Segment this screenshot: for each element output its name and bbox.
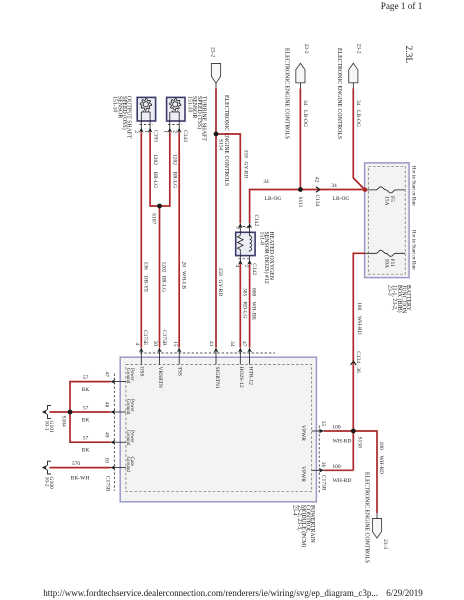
junction S107 bbox=[150, 204, 162, 225]
wire 100 WH-RD fuse F11 to S150 bbox=[353, 253, 365, 470]
svg-text:100: 100 bbox=[332, 425, 341, 431]
svg-text:570: 570 bbox=[72, 461, 81, 467]
wire 136 DB-YE OSS pin2 to PCM pin4 bbox=[141, 132, 148, 347]
label 2.3L bbox=[403, 46, 413, 64]
svg-text:1202: 1202 bbox=[152, 154, 158, 165]
svg-text:C175B: C175B bbox=[320, 475, 326, 491]
svg-text:BK: BK bbox=[82, 387, 90, 393]
svg-text:LB-OG: LB-OG bbox=[355, 110, 361, 127]
svg-text:57: 57 bbox=[83, 436, 89, 442]
svg-text:47: 47 bbox=[241, 341, 247, 347]
svg-text:359: 359 bbox=[217, 268, 223, 277]
PCM top pin stubs and arrows (pins 4,50,15,41,34,47) bbox=[134, 341, 252, 365]
svg-text:Page 1 of 1: Page 1 of 1 bbox=[381, 1, 423, 11]
svg-text:1: 1 bbox=[143, 130, 149, 133]
svg-text:57: 57 bbox=[83, 375, 89, 381]
wire 100 WH-RD S150 to connector4 bbox=[353, 431, 384, 513]
PCM connector face dashed line (right) bbox=[318, 426, 320, 495]
wire 305 RD-LG HO2S pin4 to PCM pin34 bbox=[240, 264, 247, 347]
PCM connector face dashed line (top) bbox=[140, 352, 275, 354]
PCM module box (Powertrain Control Module) bbox=[120, 357, 316, 502]
svg-text:34: 34 bbox=[263, 179, 269, 185]
svg-text:C134: C134 bbox=[314, 195, 320, 207]
wire 100 WH-RD S150 to PCM pin35 bbox=[324, 425, 353, 445]
svg-text:WH-RD: WH-RD bbox=[333, 478, 352, 484]
OSS connector C193 pins bbox=[133, 112, 158, 142]
svg-text:WH-RD: WH-RD bbox=[378, 456, 384, 475]
svg-text:1: 1 bbox=[162, 130, 168, 133]
fuse F5 15A bbox=[365, 187, 405, 206]
HO2S top connector C142 pins 3 and 1 bbox=[234, 215, 259, 233]
svg-text:100: 100 bbox=[332, 464, 341, 470]
wire 57 BK S104 to PCM pin47 bbox=[70, 375, 111, 412]
wire 359 GY-RD S154 to PCM pin41 bbox=[216, 134, 223, 348]
svg-text:WH-RD: WH-RD bbox=[356, 316, 362, 335]
svg-text:48: 48 bbox=[104, 402, 110, 408]
wire 57 BK S104 to PCM pin49 bbox=[70, 412, 111, 454]
svg-text:2: 2 bbox=[244, 265, 250, 268]
svg-text:C142: C142 bbox=[251, 263, 257, 275]
svg-text:BK-WH: BK-WH bbox=[71, 476, 90, 482]
svg-text:4: 4 bbox=[134, 343, 140, 346]
junction at fuse F5 terminal bbox=[363, 188, 367, 192]
PCM internal pin names (top) bbox=[139, 367, 254, 390]
svg-text:100: 100 bbox=[356, 302, 362, 311]
svg-text:151-10: 151-10 bbox=[186, 96, 192, 113]
svg-text:49: 49 bbox=[104, 432, 110, 438]
label TSS sensor name bbox=[186, 96, 206, 141]
svg-text:Hot in Start or Run: Hot in Start or Run bbox=[411, 166, 417, 206]
svg-text:100: 100 bbox=[378, 442, 384, 451]
svg-text:Ground: Ground bbox=[125, 430, 130, 446]
svg-text:VPWR: VPWR bbox=[300, 466, 306, 482]
junction S111 bbox=[297, 187, 303, 208]
label powertrain control module bbox=[291, 505, 315, 547]
svg-text:C142: C142 bbox=[253, 215, 259, 227]
svg-text:BK: BK bbox=[82, 418, 90, 424]
svg-text:1: 1 bbox=[244, 226, 250, 229]
svg-text:LB-OG: LB-OG bbox=[265, 196, 282, 202]
svg-text:10: 10 bbox=[104, 457, 110, 463]
svg-text:S111: S111 bbox=[297, 197, 303, 208]
svg-text:10-1: 10-1 bbox=[44, 421, 50, 431]
off-page connector 2 electronic engine controls (23-2) bbox=[283, 44, 309, 140]
svg-text:23-4: 23-4 bbox=[291, 505, 297, 516]
svg-text:VRSRTN: VRSRTN bbox=[157, 367, 163, 388]
svg-text:TSS: TSS bbox=[177, 367, 183, 376]
svg-text:VPWR: VPWR bbox=[300, 425, 306, 441]
svg-text:23-2: 23-2 bbox=[210, 47, 216, 57]
svg-text:4: 4 bbox=[234, 265, 240, 268]
svg-text:ELECTRONIC ENGINE CONTROLS: ELECTRONIC ENGINE CONTROLS bbox=[336, 48, 342, 139]
svg-text:2: 2 bbox=[172, 130, 178, 133]
wire 57 BK ground G101 to S104 bbox=[50, 411, 71, 413]
svg-text:RD-LG: RD-LG bbox=[241, 302, 247, 319]
PCM internal pin names (right) bbox=[300, 425, 306, 482]
HO2S bottom connector C142 pins 4 and 2 bbox=[234, 256, 257, 276]
junction S150 bbox=[351, 429, 363, 448]
svg-text:800: 800 bbox=[251, 288, 257, 297]
svg-text:C193: C193 bbox=[153, 130, 159, 142]
svg-text:2.3L: 2.3L bbox=[403, 46, 413, 64]
svg-text:http://www.fordtechservice.dea: http://www.fordtechservice.dealerconnect… bbox=[43, 588, 378, 598]
svg-text:C134 . 36: C134 . 36 bbox=[355, 351, 361, 373]
svg-text:23-3: 23-3 bbox=[387, 285, 393, 296]
wire 359 GY-RD S154 branch to HO2S pin3 bbox=[216, 134, 249, 223]
svg-text:C175B: C175B bbox=[161, 330, 167, 346]
svg-text:15A: 15A bbox=[383, 196, 389, 206]
svg-text:ELECTRONIC ENGINE CONTROLS: ELECTRONIC ENGINE CONTROLS bbox=[283, 48, 289, 139]
svg-text:50: 50 bbox=[152, 341, 158, 347]
fuse F11 10A bbox=[365, 250, 405, 268]
svg-text:34: 34 bbox=[355, 100, 361, 106]
svg-text:BR-LG: BR-LG bbox=[161, 276, 167, 293]
svg-text:151-10: 151-10 bbox=[112, 96, 118, 113]
battery junction box (BJB) bbox=[365, 163, 410, 278]
sensor box HO2S (heated oxygen sensor #12) bbox=[236, 232, 255, 255]
svg-text:136: 136 bbox=[142, 262, 148, 271]
connector label C175B (top) bbox=[161, 330, 167, 346]
wire 100 WH-RD S150 down branch to PCM pin36 bbox=[324, 464, 353, 484]
svg-text:S107: S107 bbox=[150, 213, 156, 225]
svg-text:Ground: Ground bbox=[125, 368, 130, 384]
inline connector C134 pin 36 on vertical wire bbox=[351, 351, 361, 373]
off-page connector 1 electronic engine controls (23-2) bbox=[210, 47, 229, 186]
PCM connector face dashed line (left) bbox=[113, 374, 115, 492]
svg-text:359: 359 bbox=[243, 150, 249, 159]
svg-text:C175E: C175E bbox=[142, 330, 148, 346]
svg-text:2: 2 bbox=[133, 130, 139, 133]
junction S154 bbox=[214, 132, 224, 151]
svg-text:20: 20 bbox=[180, 262, 186, 268]
label HO2S sensor name bbox=[258, 232, 273, 284]
svg-text:Ground: Ground bbox=[125, 457, 130, 473]
svg-text:57: 57 bbox=[83, 406, 89, 412]
svg-text:10-2: 10-2 bbox=[44, 477, 50, 487]
svg-text:1202: 1202 bbox=[161, 262, 167, 273]
svg-text:34: 34 bbox=[302, 100, 308, 106]
svg-text:Ground: Ground bbox=[125, 399, 130, 415]
wire connector1 to S154 bbox=[215, 89, 217, 135]
PCM left pin stubs and arrows (pins 47,48,49,10) bbox=[104, 371, 126, 470]
PCM internal pin names (left) bbox=[125, 368, 134, 472]
svg-text:34: 34 bbox=[229, 341, 235, 347]
svg-text:35: 35 bbox=[320, 421, 326, 427]
wire 570 BK-WH ground G100 to PCM pin10 bbox=[50, 461, 111, 482]
wire 57 BK S104 to PCM pin48 bbox=[70, 406, 111, 424]
connector label C175E bbox=[142, 330, 148, 346]
svg-text:151-8: 151-8 bbox=[258, 232, 264, 246]
wire 1202 BR-LG TSS pin1 branch to S107 bbox=[160, 132, 178, 206]
label battery junction box bbox=[387, 285, 411, 314]
svg-text:S150: S150 bbox=[356, 437, 362, 449]
svg-text:23-2: 23-2 bbox=[355, 44, 361, 54]
sensor box TSS (turbine shaft speed sensor) bbox=[167, 97, 185, 121]
connector label C175B (bottom right) bbox=[320, 475, 326, 491]
label hot in start or run (F11) bbox=[411, 230, 417, 270]
page footer URL bbox=[43, 588, 423, 598]
svg-text:Hot in Start or Run: Hot in Start or Run bbox=[411, 230, 417, 270]
connector label C175B (bottom left) bbox=[104, 476, 110, 492]
wire 800 WH-BK HO2S pin2 to PCM pin47 bbox=[250, 264, 257, 347]
svg-text:ELECTRONIC ENGINE CONTROLS: ELECTRONIC ENGINE CONTROLS bbox=[363, 472, 369, 563]
TSS connector C143 pins bbox=[162, 112, 188, 142]
svg-text:10A: 10A bbox=[383, 259, 389, 269]
off-page connector 3 electronic engine controls (23-2) bbox=[336, 44, 362, 140]
svg-text:41: 41 bbox=[208, 341, 214, 347]
svg-text:23-3: 23-3 bbox=[382, 539, 388, 549]
svg-text:DB-YE: DB-YE bbox=[142, 276, 148, 293]
svg-text:WH-BK: WH-BK bbox=[251, 302, 257, 321]
svg-text:LB-OG: LB-OG bbox=[302, 110, 308, 127]
svg-text:HO2S-12: HO2S-12 bbox=[238, 367, 244, 388]
svg-text:6/29/2019: 6/29/2019 bbox=[386, 588, 423, 598]
svg-text:15: 15 bbox=[172, 341, 178, 347]
PCM right pin stubs and arrows (pins 35,36) bbox=[312, 421, 326, 473]
wire 1202 BR-LG OSS pin1 branch to S107 bbox=[150, 132, 159, 206]
label hot in start or run (F5) bbox=[411, 166, 417, 206]
svg-text:305: 305 bbox=[241, 288, 247, 297]
svg-text:BR-LG: BR-LG bbox=[152, 172, 158, 189]
svg-text:S104: S104 bbox=[60, 416, 66, 428]
svg-text:BK: BK bbox=[82, 448, 90, 454]
svg-text:3: 3 bbox=[234, 226, 240, 229]
svg-text:23-2: 23-2 bbox=[303, 44, 309, 54]
wire 34 LB-OG connector3 to BJB fuse F5 terminal bbox=[353, 88, 365, 190]
svg-text:C143: C143 bbox=[182, 130, 188, 142]
off-page connector 4 electronic engine controls (23-3) bbox=[363, 472, 388, 563]
inline connector C134 pin 42 on horizontal wire bbox=[314, 177, 350, 207]
svg-text:LB-OG: LB-OG bbox=[333, 196, 350, 202]
svg-text:36: 36 bbox=[320, 462, 326, 468]
wire 1202 BR-LG S107 to PCM pin50 bbox=[160, 206, 167, 348]
svg-text:WH-LB: WH-LB bbox=[180, 271, 186, 289]
svg-text:SIGRTN1: SIGRTN1 bbox=[214, 367, 220, 390]
svg-text:OSS: OSS bbox=[139, 367, 145, 377]
svg-text:GY-RD: GY-RD bbox=[217, 280, 223, 297]
svg-text:HTR-12: HTR-12 bbox=[247, 367, 253, 386]
ground G101 bbox=[42, 406, 54, 433]
sensor box OSS (output shaft speed sensor) bbox=[137, 97, 155, 121]
wire 34 LB-OG connector2 to S111 bbox=[300, 88, 308, 189]
page header bbox=[381, 1, 423, 11]
svg-text:BR-LG: BR-LG bbox=[172, 172, 178, 189]
svg-text:WH-RD: WH-RD bbox=[333, 439, 352, 445]
svg-text:GY-RD: GY-RD bbox=[243, 162, 249, 179]
svg-text:34: 34 bbox=[331, 183, 337, 189]
svg-text:1202: 1202 bbox=[172, 154, 178, 165]
wire 20 WH-LB TSS pin2 to PCM pin15 bbox=[179, 132, 186, 347]
svg-text:42: 42 bbox=[314, 177, 320, 183]
ground G100 bbox=[42, 461, 54, 489]
svg-text:C175B: C175B bbox=[104, 476, 110, 492]
svg-text:47: 47 bbox=[104, 371, 110, 377]
junction S104 bbox=[60, 410, 72, 427]
label OSS sensor name bbox=[112, 96, 132, 139]
wire 34 LB-OG HO2S pin1 to S111 to BJB fuse F5 bbox=[250, 179, 366, 224]
svg-text:S154: S154 bbox=[218, 139, 224, 151]
